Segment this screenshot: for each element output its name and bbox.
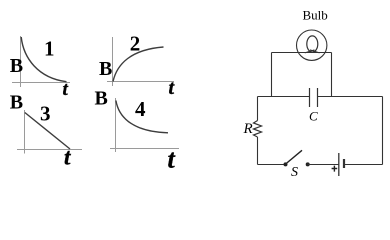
svg-text:t: t	[64, 145, 71, 170]
wire bottom left segment	[258, 164, 286, 166]
wire bottom middle segment	[308, 164, 339, 166]
svg-text:B: B	[99, 58, 112, 80]
wire bottom right segment	[344, 164, 383, 166]
svg-text:1: 1	[44, 37, 55, 61]
svg-text:4: 4	[135, 97, 146, 121]
wire main top left segment	[258, 96, 310, 98]
wire main top right segment	[318, 96, 383, 98]
wire bulb branch left vertical	[271, 53, 273, 97]
wire bulb branch right vertical	[331, 53, 333, 97]
svg-text:B: B	[10, 55, 23, 77]
battery plus label	[332, 166, 338, 172]
svg-text:t: t	[168, 145, 176, 174]
resistor R zigzag	[254, 121, 262, 138]
bulb filament flare right	[310, 50, 320, 53]
graph 2 rising saturating curve	[113, 47, 164, 82]
graph 4 vertical axis B	[115, 98, 117, 152]
switch S left contact dot	[284, 162, 288, 166]
svg-text:R: R	[243, 121, 253, 137]
graph 3 vertical axis B	[24, 110, 26, 154]
svg-text:B: B	[95, 88, 108, 110]
graph 3 horizontal axis t	[17, 149, 82, 151]
switch S right contact dot	[306, 162, 310, 166]
switch S blade	[285, 150, 302, 164]
wire right vertical	[382, 97, 384, 165]
svg-text:2: 2	[130, 32, 141, 56]
graph 2 vertical axis B	[112, 37, 114, 86]
bulb lamp circle	[297, 30, 327, 60]
svg-text:C: C	[309, 109, 318, 124]
graph 1 horizontal axis t	[12, 82, 70, 84]
graph 4 horizontal axis t	[110, 148, 179, 150]
bulb filament loop	[307, 36, 318, 52]
wire bulb branch horizontal	[272, 52, 332, 54]
graph 1 vertical axis B	[20, 36, 22, 87]
svg-text:Bulb: Bulb	[303, 7, 328, 22]
svg-text:S: S	[291, 165, 298, 180]
battery short plate	[343, 159, 345, 168]
graph 4 decay curve with asymptote	[116, 101, 168, 133]
battery long plate	[338, 153, 340, 176]
svg-text:3: 3	[40, 102, 51, 126]
capacitor C left plate	[309, 88, 311, 107]
wire left upper segment	[257, 97, 259, 121]
svg-text:t: t	[63, 79, 69, 100]
svg-text:t: t	[169, 77, 176, 99]
graph 2 horizontal axis t	[107, 81, 174, 83]
wire left lower segment	[257, 137, 259, 165]
graph 1 decay curve	[21, 37, 66, 82]
bulb filament flare left	[305, 50, 315, 53]
graph 3 straight decreasing line	[25, 113, 70, 150]
capacitor C right plate	[317, 88, 319, 107]
svg-text:B: B	[10, 92, 23, 114]
